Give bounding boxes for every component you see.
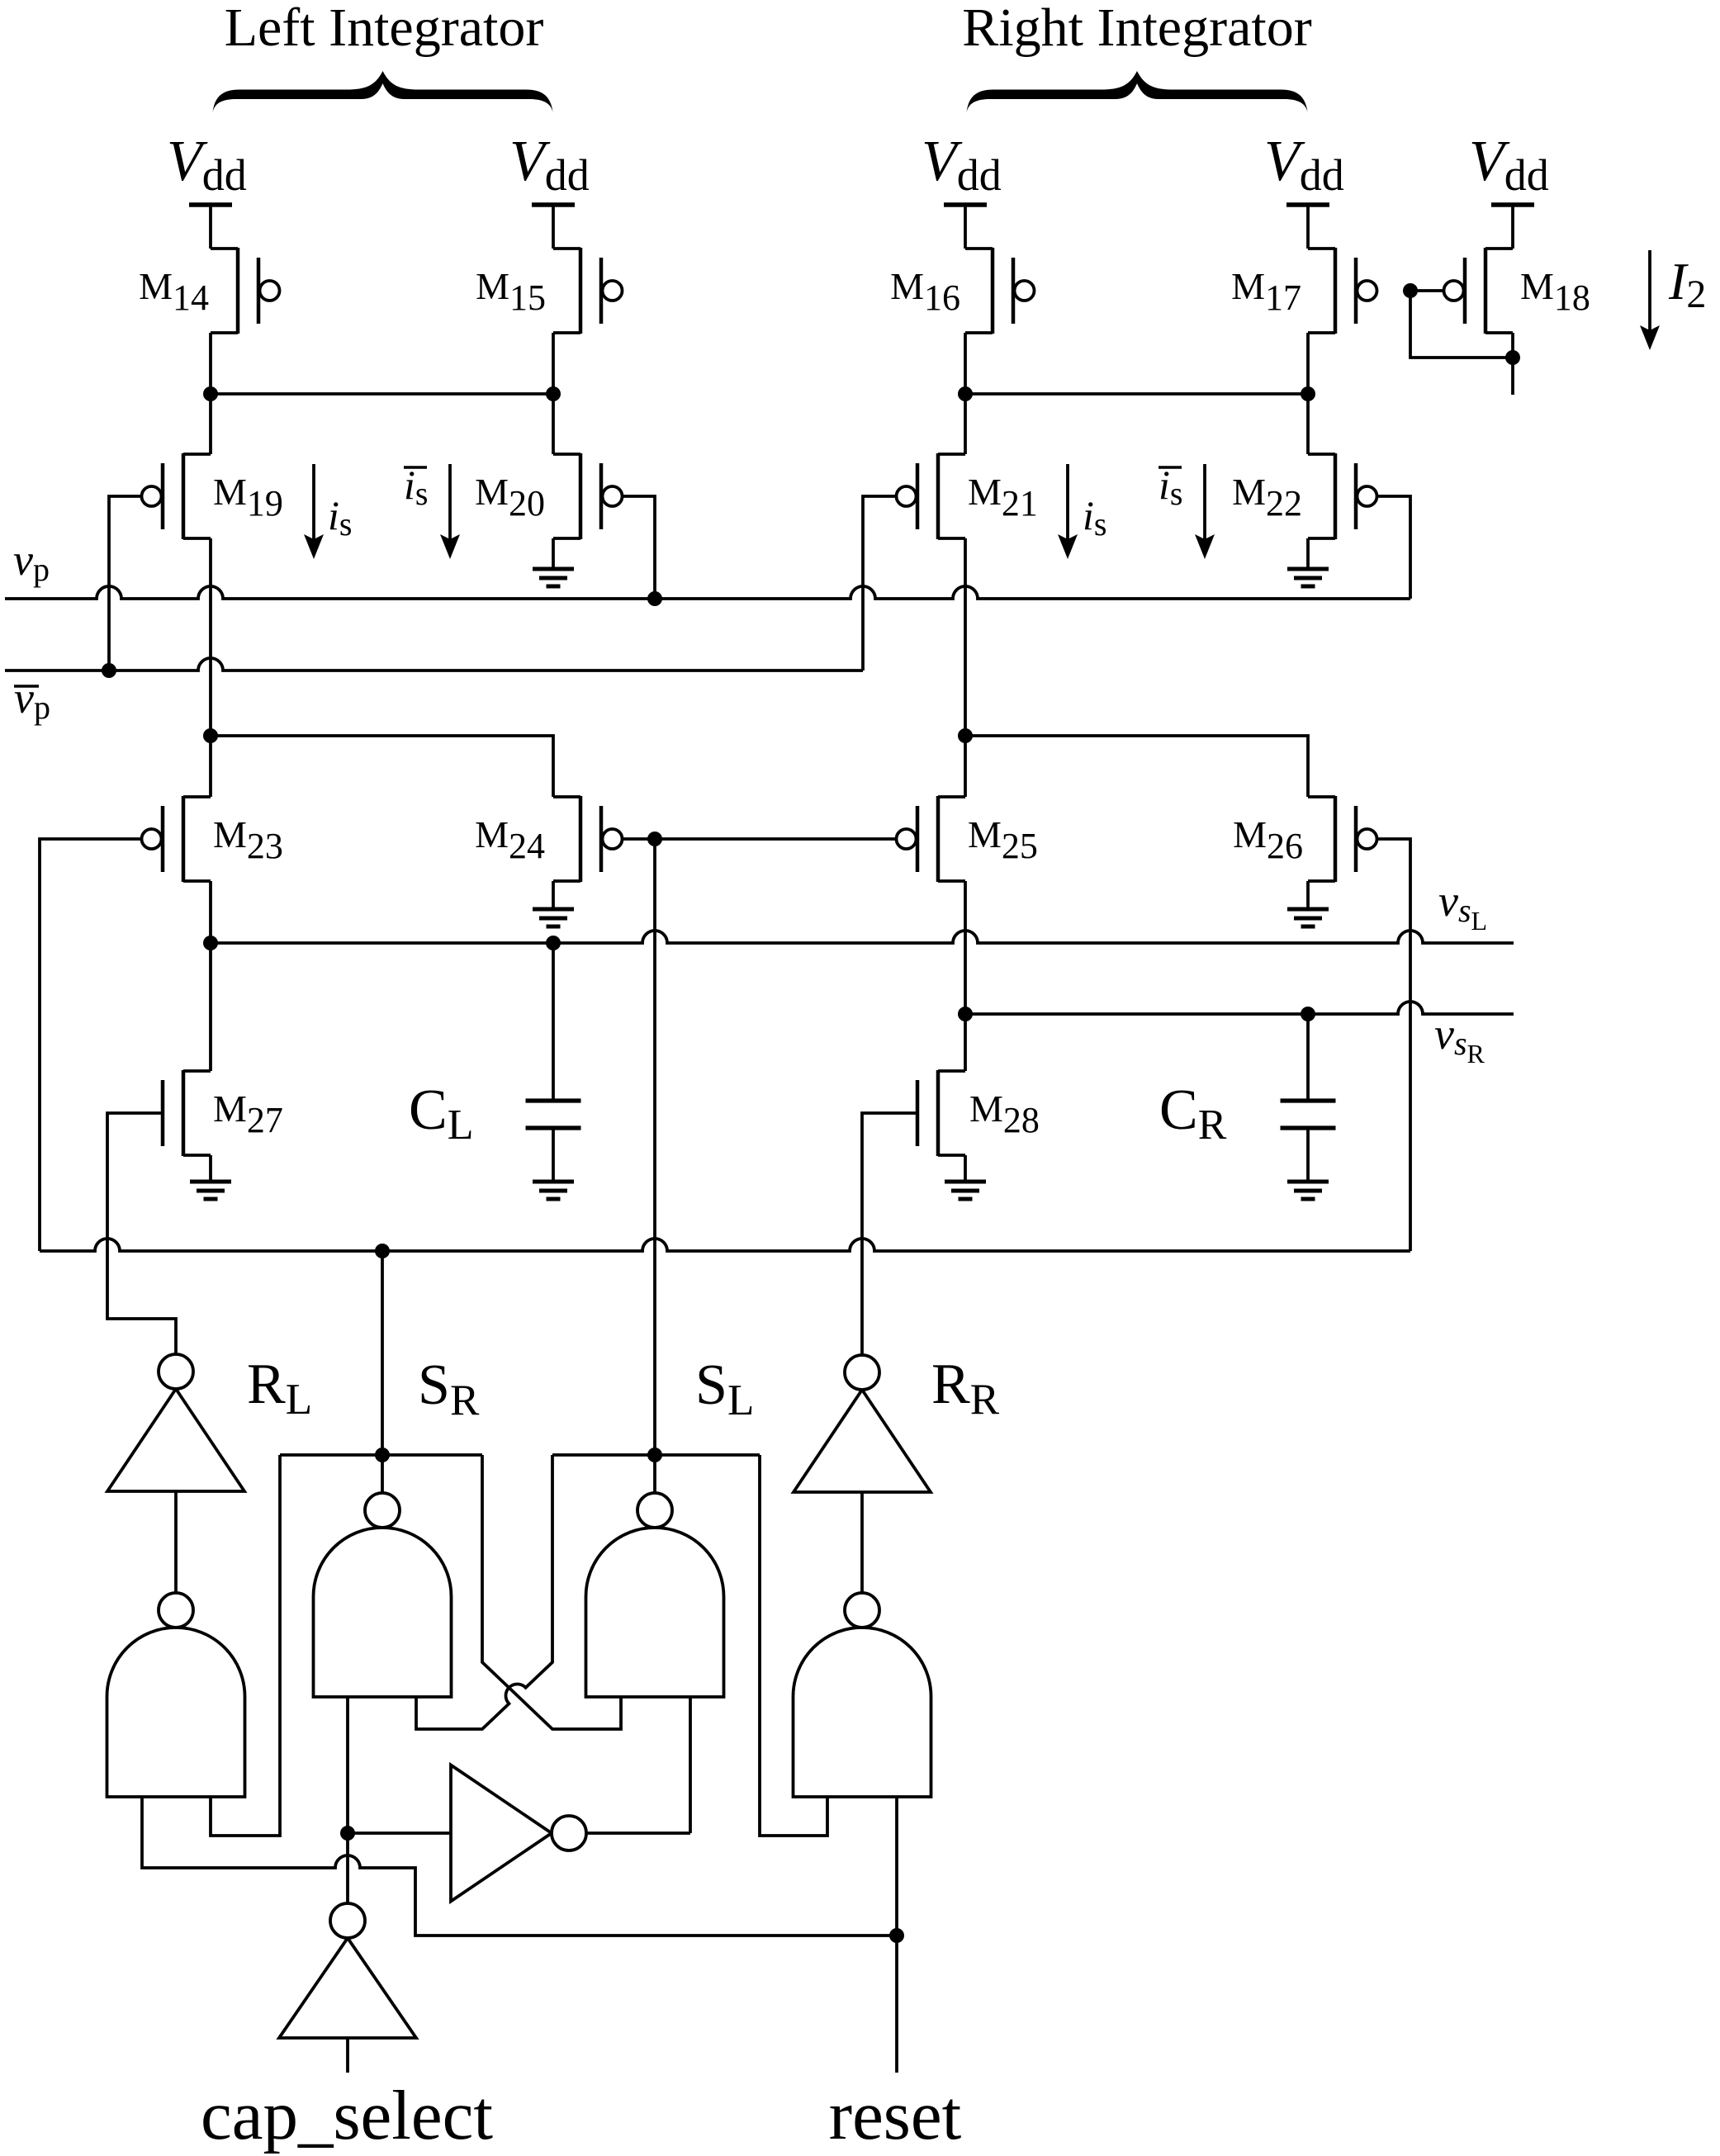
wire M26 source — [1306, 881, 1310, 909]
transistor M19 — [182, 453, 186, 539]
node M24-M25 gate — [647, 832, 662, 846]
nand S_L — [586, 1528, 724, 1697]
wire M20 gate to vp — [622, 496, 655, 599]
wire SL-net down to latch — [653, 839, 656, 1455]
wire M21 gate to vp-bar end — [863, 496, 897, 670]
node vsR CR — [1301, 1007, 1315, 1021]
inverter R_R — [794, 1390, 931, 1492]
wire S_L to S_R input (cross with hop) — [416, 1455, 552, 1729]
transistor M23 — [182, 796, 186, 882]
wire vp-bar — [5, 658, 863, 670]
node left y891 — [203, 728, 218, 743]
transistor M20 — [579, 453, 583, 539]
node M19 gate on vp-bar — [102, 663, 116, 678]
node M17 drain — [1301, 386, 1315, 401]
wire R_L inv input — [174, 1491, 178, 1593]
transistor M14 — [236, 248, 240, 334]
wire M27 source — [209, 1155, 212, 1182]
label is-bar (right) — [1159, 466, 1182, 468]
capacitor CL — [526, 1098, 581, 1102]
brace Right Integrator — [967, 71, 1308, 112]
transistor M16 — [991, 248, 995, 334]
node M14 drain — [203, 386, 218, 401]
inverter R_L — [107, 1389, 244, 1491]
ground M28 — [945, 1180, 986, 1184]
ground CR — [1287, 1180, 1329, 1184]
ground M20 — [533, 567, 574, 571]
transistor M18 — [1484, 248, 1488, 334]
wire M19 gate to vp-bar — [109, 496, 142, 670]
svg-text:Left Integrator: Left Integrator — [225, 0, 544, 58]
transistor M27 — [182, 1070, 186, 1156]
transistor M15 — [579, 248, 583, 334]
node SR-net branch — [375, 1244, 390, 1258]
wire CR top — [1306, 1014, 1310, 1101]
wire S_L to R_R input — [760, 1455, 827, 1836]
wire vp — [5, 586, 1410, 599]
wire M22 source — [1306, 538, 1310, 569]
current is arrow (left) — [312, 464, 315, 539]
node vsR left — [958, 1007, 973, 1021]
transistor M22 — [1334, 453, 1338, 539]
wire M21 source down — [964, 538, 967, 736]
transistor M24 — [579, 796, 583, 882]
node M16 drain — [958, 386, 973, 401]
wire M28 source — [964, 1155, 967, 1182]
transistor M25 — [936, 796, 941, 882]
power Vdd (M18) — [1491, 202, 1534, 207]
wire M24-M25 gate net — [622, 837, 897, 841]
wire M14-M15 drains — [211, 392, 553, 396]
node cap_select tap — [340, 1826, 355, 1841]
wire R_R inv input — [860, 1492, 864, 1593]
wire S_L right input down — [689, 1697, 692, 1833]
wire M16-M17 drains — [965, 392, 1308, 396]
nand S_R — [314, 1528, 452, 1697]
inverter cap_select — [279, 1938, 416, 2038]
wire M24 source — [552, 881, 555, 909]
wire M25 drain down — [964, 881, 967, 1071]
wire M21-drain node to M26 — [965, 736, 1308, 797]
brace Left Integrator — [213, 71, 553, 112]
wire S_R output bar — [280, 1453, 482, 1457]
current is-bar arrow (right) — [1203, 464, 1206, 539]
wire SR-net down to latch — [381, 1251, 384, 1455]
wire M26 gate loop — [1376, 839, 1410, 1251]
wire S_L output bar — [552, 1453, 760, 1457]
wire CR bottom — [1306, 1128, 1310, 1182]
wire CL bottom — [552, 1128, 555, 1182]
wire mid inverter output — [586, 1831, 690, 1835]
ground M22 — [1287, 567, 1329, 571]
wire S_R left input down — [346, 1697, 349, 1903]
current I2 arrow — [1648, 250, 1651, 330]
wire S_R output riser — [381, 1455, 384, 1493]
wire S_R to R_L input — [211, 1455, 280, 1836]
ground M27 — [190, 1180, 231, 1184]
wire right node down — [964, 736, 967, 797]
capacitor CR — [1281, 1098, 1336, 1102]
wire cap_select stub — [346, 2038, 349, 2073]
node M15 drain — [546, 386, 561, 401]
ground M24 — [533, 907, 574, 912]
wire reset input — [895, 1797, 898, 2073]
node reset junction — [889, 1928, 904, 1943]
node vsL CL — [546, 936, 561, 950]
wire M27 gate — [107, 1113, 176, 1354]
ground M26 — [1287, 907, 1329, 912]
label is-bar (left) — [404, 466, 427, 468]
wire SR-net horizontal — [40, 1239, 1410, 1251]
wire M23 node down to M27 — [209, 943, 212, 1071]
label vp-bar — [14, 685, 39, 687]
wire M22 gate to vp end — [1376, 496, 1410, 599]
wire M18 drain stub — [1511, 333, 1514, 395]
wire M28 gate — [862, 1113, 917, 1355]
nand R_R — [794, 1628, 931, 1797]
transistor M26 — [1334, 796, 1338, 882]
wire M18 gate-drain diode — [1410, 291, 1513, 358]
transistor M28 — [936, 1070, 941, 1156]
transistor M21 — [936, 453, 941, 539]
ground CL — [533, 1180, 574, 1184]
node M18 gate corner — [1403, 283, 1418, 298]
transistor M17 — [1334, 248, 1338, 334]
wire left node down — [209, 736, 212, 797]
node right y891 — [958, 728, 973, 743]
inverter cap_select buffer — [451, 1765, 552, 1902]
wire mid inverter input — [348, 1831, 451, 1835]
node M18 drain — [1505, 350, 1520, 365]
wire vsL — [211, 931, 1514, 943]
current is arrow (right) — [1066, 464, 1069, 539]
wire M19-drain node to M24 — [211, 736, 553, 797]
wire CL top — [552, 943, 555, 1101]
nand R_L — [107, 1628, 245, 1797]
power Vdd (M14) — [189, 202, 232, 207]
power Vdd (M15) — [532, 202, 575, 207]
power Vdd (M16) — [944, 202, 987, 207]
current is-bar arrow (left) — [448, 464, 452, 539]
power Vdd (M17) — [1286, 202, 1329, 207]
wire R_L left input to reset — [142, 1797, 897, 1936]
svg-text:cap_select: cap_select — [201, 2077, 493, 2154]
svg-text:reset: reset — [829, 2077, 962, 2154]
wire M23 drain down — [209, 881, 212, 943]
node S_R bar — [375, 1448, 390, 1462]
node vsL left — [203, 936, 218, 950]
wire M19 source down — [209, 538, 212, 736]
svg-text:Right Integrator: Right Integrator — [962, 0, 1311, 58]
wire M23 gate loop — [40, 839, 142, 1251]
node M20 gate on vp — [647, 591, 662, 606]
node S_L bar — [647, 1448, 662, 1462]
wire S_L output riser — [653, 1455, 656, 1493]
wire vsR — [965, 1002, 1514, 1014]
wire M20 source — [552, 538, 555, 569]
wire S_R to S_L input (cross) — [482, 1455, 621, 1729]
